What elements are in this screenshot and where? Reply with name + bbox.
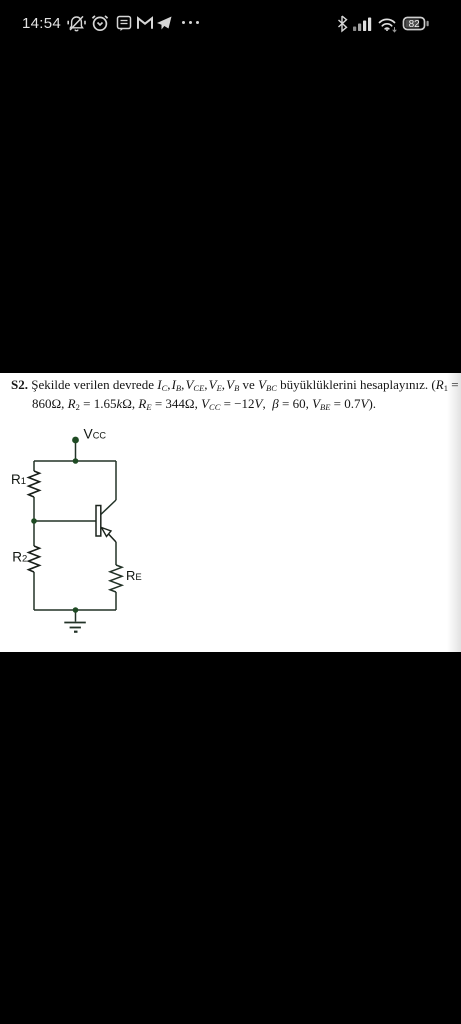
wire left upper bbox=[33, 461, 35, 471]
svg-text:82: 82 bbox=[409, 19, 421, 30]
battery 82 bbox=[404, 18, 429, 31]
notes app icon bbox=[118, 17, 131, 32]
resistor R2 bbox=[29, 546, 40, 572]
ellipsis dots bbox=[182, 21, 199, 24]
alarm clock icon bbox=[93, 16, 108, 30]
muted bell icon bbox=[68, 16, 85, 30]
svg-text:VCC: VCC bbox=[84, 426, 107, 441]
transistor Q1 collector lead bbox=[101, 500, 116, 515]
wire base bbox=[34, 520, 97, 522]
transistor Q1 base bar bbox=[96, 506, 101, 537]
status icons left bbox=[64, 13, 204, 33]
node base junction bbox=[31, 518, 37, 524]
svg-text:R2: R2 bbox=[12, 549, 27, 564]
wire left middle bbox=[33, 497, 35, 546]
svg-text:R1: R1 bbox=[11, 472, 26, 487]
wire left lower bbox=[33, 572, 35, 610]
ground bbox=[75, 610, 77, 622]
transistor Q1 emitter arrow bbox=[102, 528, 112, 537]
wifi icon bbox=[380, 19, 397, 31]
node top junction bbox=[73, 458, 79, 464]
wire right lower bbox=[115, 592, 117, 610]
white document area bbox=[0, 373, 461, 652]
circuit schematic bbox=[0, 420, 180, 645]
transistor Q1 emitter lead bbox=[109, 534, 117, 542]
svg-text:RE: RE bbox=[126, 568, 142, 583]
resistor R1 bbox=[29, 471, 40, 497]
node Vcc dot bbox=[72, 437, 79, 444]
status bar bbox=[0, 0, 461, 40]
wire bottom rail bbox=[34, 609, 116, 611]
signal bars bbox=[353, 18, 371, 32]
wire right upper bbox=[115, 461, 117, 500]
resistor RE bbox=[110, 565, 122, 592]
bluetooth icon bbox=[339, 16, 347, 31]
telegram icon bbox=[157, 17, 172, 30]
gmail icon bbox=[138, 18, 152, 29]
status icons right bbox=[336, 11, 436, 35]
wire Vcc stub bbox=[75, 440, 77, 461]
wire right middle bbox=[115, 542, 117, 565]
wire top rail bbox=[34, 460, 116, 462]
node ground junction bbox=[73, 607, 79, 613]
